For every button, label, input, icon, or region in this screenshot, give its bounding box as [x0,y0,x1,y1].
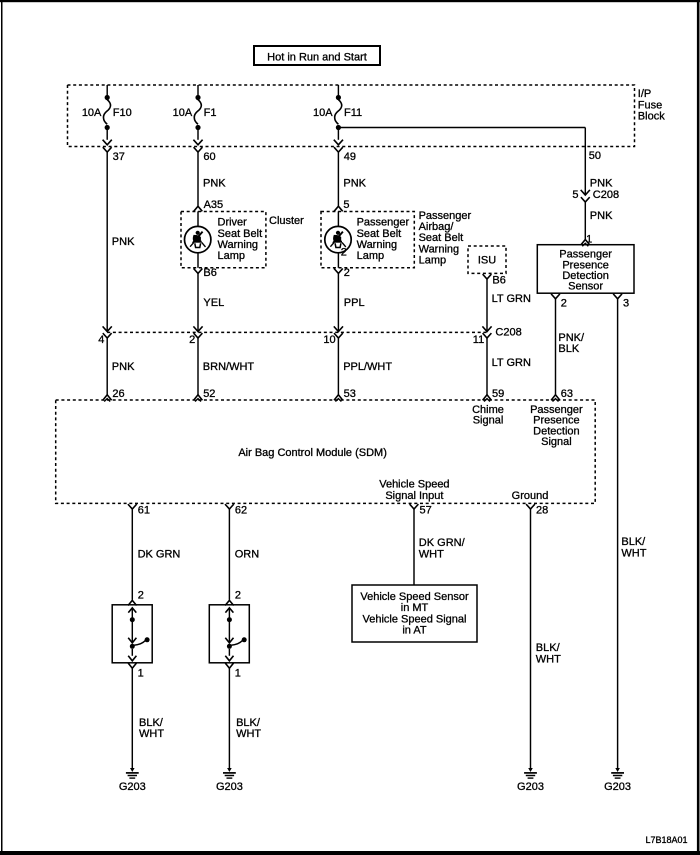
svg-text:2: 2 [344,267,350,279]
svg-text:F10: F10 [113,107,132,119]
svg-text:LT GRN: LT GRN [492,357,531,369]
svg-text:2: 2 [138,589,144,601]
svg-text:PNK: PNK [112,236,135,248]
svg-text:DK GRN/: DK GRN/ [419,537,466,549]
svg-text:L7B18A01: L7B18A01 [645,835,687,845]
svg-text:G203: G203 [604,781,631,793]
svg-text:YEL: YEL [203,297,224,309]
svg-text:BLK/: BLK/ [621,536,646,548]
svg-text:5: 5 [572,189,578,201]
svg-text:Fuse: Fuse [638,99,662,111]
svg-text:Air Bag Control Module (SDM): Air Bag Control Module (SDM) [238,447,387,459]
svg-text:PNK: PNK [590,210,613,222]
svg-text:Vehicle Speed: Vehicle Speed [379,479,449,491]
svg-text:G203: G203 [119,781,146,793]
svg-text:PNK: PNK [590,177,613,189]
svg-text:G203: G203 [216,781,243,793]
svg-text:WHT: WHT [419,549,444,561]
svg-text:BLK/: BLK/ [236,717,261,729]
svg-text:B6: B6 [492,274,505,286]
svg-text:Vehicle Speed Sensor: Vehicle Speed Sensor [360,591,469,603]
svg-text:Lamp: Lamp [357,250,385,262]
svg-text:WHT: WHT [536,654,561,666]
svg-text:11: 11 [473,334,484,346]
svg-text:PNK: PNK [343,177,366,189]
svg-text:4: 4 [98,334,104,346]
svg-text:C208: C208 [495,327,521,339]
svg-text:C208: C208 [593,189,619,201]
svg-text:1: 1 [138,667,144,679]
svg-text:PPL/WHT: PPL/WHT [343,361,392,373]
svg-text:G203: G203 [517,781,544,793]
svg-text:2: 2 [189,334,195,346]
svg-text:WHT: WHT [621,547,646,559]
svg-text:Signal: Signal [541,436,572,448]
svg-text:59: 59 [492,388,504,400]
svg-text:Hot in Run and Start: Hot in Run and Start [267,52,367,64]
svg-text:F1: F1 [204,107,217,119]
svg-text:57: 57 [420,505,432,517]
svg-text:Signal Input: Signal Input [385,490,443,502]
svg-text:in MT: in MT [401,602,429,614]
svg-text:Lamp: Lamp [218,250,246,262]
svg-text:LT GRN: LT GRN [492,293,531,305]
svg-text:49: 49 [344,151,356,163]
svg-text:61: 61 [138,505,150,517]
svg-text:I/P: I/P [638,88,651,100]
svg-text:Ground: Ground [512,490,549,502]
svg-text:PPL: PPL [344,297,365,309]
svg-text:5: 5 [343,199,349,211]
svg-text:Lamp: Lamp [419,254,447,266]
svg-text:WHT: WHT [236,728,261,740]
svg-text:BLK: BLK [558,343,579,355]
svg-text:WHT: WHT [139,728,164,740]
svg-text:10A: 10A [173,107,193,119]
svg-text:2: 2 [341,246,347,258]
svg-text:Cluster: Cluster [269,215,304,227]
svg-text:37: 37 [113,151,125,163]
svg-text:ORN: ORN [235,549,260,561]
svg-text:63: 63 [561,388,573,400]
svg-text:26: 26 [112,388,124,400]
svg-text:BLK/: BLK/ [139,717,164,729]
svg-text:BLK/: BLK/ [536,642,561,654]
svg-text:PNK: PNK [203,177,226,189]
svg-text:Vehicle Speed Signal: Vehicle Speed Signal [363,613,467,625]
svg-text:PNK: PNK [112,361,135,373]
svg-text:28: 28 [536,505,548,517]
svg-text:53: 53 [344,388,356,400]
svg-text:Block: Block [638,111,665,123]
svg-text:BRN/WHT: BRN/WHT [203,361,255,373]
svg-text:50: 50 [589,150,601,162]
svg-text:B6: B6 [203,267,216,279]
svg-text:1: 1 [235,667,241,679]
svg-text:Sensor: Sensor [568,281,603,293]
svg-text:A35: A35 [204,199,224,211]
svg-text:Signal: Signal [473,415,504,427]
svg-text:10A: 10A [82,107,102,119]
svg-text:60: 60 [203,151,215,163]
svg-text:10: 10 [323,334,335,346]
svg-text:62: 62 [235,505,247,517]
svg-text:ISU: ISU [478,255,496,267]
svg-text:DK GRN: DK GRN [138,549,181,561]
svg-text:2: 2 [561,297,567,309]
svg-text:3: 3 [623,297,629,309]
svg-text:F11: F11 [344,107,362,119]
svg-text:in AT: in AT [402,625,427,637]
svg-text:2: 2 [235,589,241,601]
svg-text:52: 52 [203,388,215,400]
svg-text:10A: 10A [313,107,333,119]
